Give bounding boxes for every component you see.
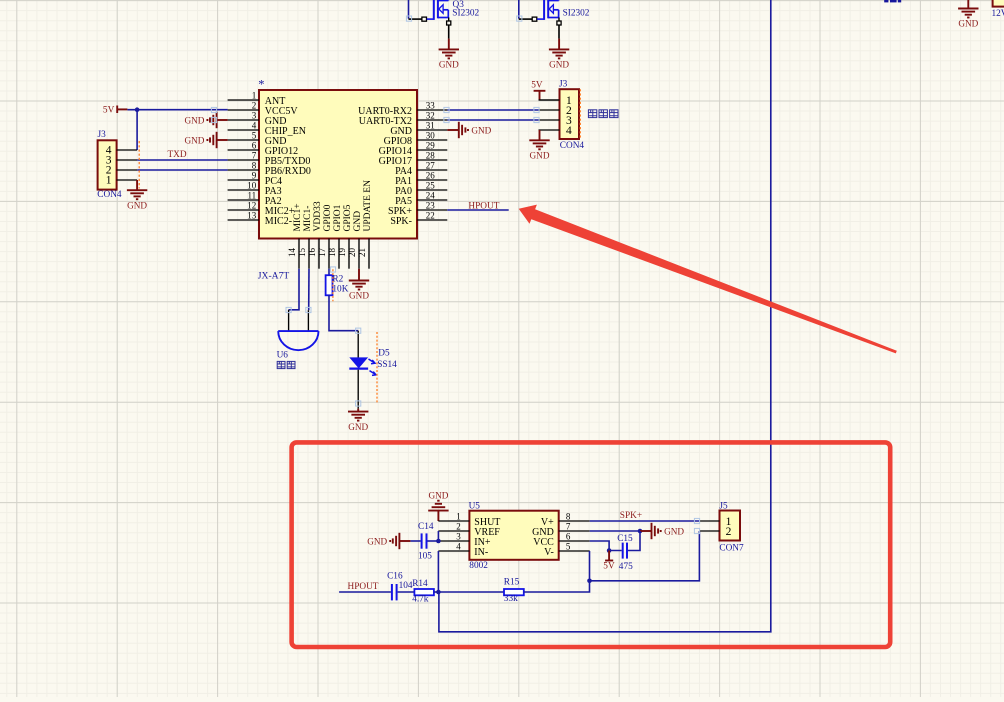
svg-text:V-: V-	[544, 547, 554, 558]
ground D5	[348, 409, 369, 432]
wire VREF to IN+	[437, 531, 439, 542]
svg-text:4.7k: 4.7k	[412, 595, 429, 605]
svg-text:R2: R2	[332, 275, 343, 285]
wire C14 to IN+	[428, 540, 439, 542]
svg-text:6: 6	[566, 532, 571, 542]
svg-text:5: 5	[566, 542, 571, 552]
connector J3 CON4 (burn port)	[539, 79, 585, 151]
svg-text:475: 475	[619, 562, 633, 572]
svg-text:GPIO0: GPIO0	[323, 204, 333, 231]
ground U1 pin31	[447, 122, 491, 138]
capacitor C14	[418, 522, 434, 562]
annotation red arrow	[519, 205, 897, 354]
wire TXD net	[137, 159, 228, 161]
svg-text:TXD: TXD	[168, 150, 187, 160]
svg-text:GPIO1: GPIO1	[333, 204, 343, 231]
svg-text:GND: GND	[348, 422, 368, 432]
junction	[436, 590, 441, 595]
wire 5V to VCC5V	[127, 109, 227, 111]
ground	[549, 39, 570, 70]
svg-text:SS14: SS14	[377, 360, 397, 370]
svg-text:C14: C14	[418, 522, 434, 532]
wire IN- down	[437, 551, 439, 592]
svg-text:GND: GND	[349, 291, 369, 301]
svg-text:21: 21	[357, 248, 367, 257]
svg-text:2: 2	[252, 100, 257, 110]
svg-text:25: 25	[426, 180, 436, 190]
svg-text:1: 1	[106, 175, 112, 187]
svg-text:GND: GND	[428, 491, 448, 501]
svg-text:12: 12	[247, 200, 256, 210]
svg-text:GND: GND	[184, 136, 204, 146]
svg-text:MIC1+: MIC1+	[293, 203, 303, 231]
wire UART0-RX2	[447, 109, 538, 111]
svg-text:14: 14	[287, 248, 297, 258]
capacitor C16	[387, 572, 413, 601]
svg-text:32: 32	[426, 110, 435, 120]
svg-text:GND: GND	[353, 211, 363, 232]
wire R15 to V-	[524, 551, 590, 592]
svg-text:26: 26	[426, 170, 436, 180]
svg-text:MIC2-: MIC2-	[265, 216, 292, 227]
resistor R2	[326, 269, 349, 296]
svg-text:GND: GND	[439, 60, 459, 70]
wire GND down to C15	[628, 531, 641, 551]
svg-text:3: 3	[252, 110, 257, 120]
connector J3 CON4 (left)	[97, 130, 137, 200]
selection dashes R2	[332, 269, 334, 301]
svg-text:C15: C15	[617, 534, 633, 544]
svg-text:2: 2	[456, 522, 461, 532]
ground	[958, 0, 979, 29]
wire MIC1- to mic	[308, 269, 310, 311]
capacitor C15	[617, 534, 633, 572]
power 5V	[103, 105, 127, 115]
svg-text:13: 13	[247, 210, 257, 220]
node 12V cut text	[884, 0, 901, 2]
svg-text:SI2302: SI2302	[563, 9, 590, 19]
wire long vertical net	[439, 0, 771, 632]
ground at C14	[367, 533, 410, 549]
svg-text:JX-A7T: JX-A7T	[258, 271, 290, 282]
svg-text:7: 7	[566, 522, 571, 532]
svg-text:HPOUT: HPOUT	[348, 582, 379, 592]
svg-text:R15: R15	[504, 577, 520, 587]
wire HPOUT	[339, 591, 391, 593]
svg-text:6: 6	[252, 140, 257, 150]
svg-text:5V: 5V	[103, 105, 115, 115]
resistor R14	[412, 579, 434, 605]
svg-text:5: 5	[252, 130, 257, 140]
svg-text:33k: 33k	[504, 594, 518, 604]
ground	[439, 39, 460, 70]
svg-text:CON4: CON4	[560, 141, 585, 151]
wire V+ to J5 pin1	[590, 520, 700, 522]
svg-text:SPK+: SPK+	[620, 511, 642, 521]
wire RXD net	[137, 169, 228, 171]
svg-text:19: 19	[337, 248, 347, 258]
svg-text:10K: 10K	[332, 285, 348, 295]
ground U1 pin20	[349, 269, 370, 301]
svg-text:HPOUT: HPOUT	[468, 201, 499, 211]
wire R14 to junction	[434, 591, 439, 593]
junction	[587, 579, 592, 584]
svg-text:29: 29	[426, 140, 436, 150]
svg-text:GND: GND	[530, 151, 550, 161]
svg-text:16: 16	[307, 248, 317, 258]
connector J? 12V fragment	[992, 0, 1004, 19]
selection marks	[211, 16, 699, 534]
svg-text:20: 20	[347, 248, 357, 258]
svg-text:GND: GND	[664, 527, 684, 537]
svg-text:24: 24	[426, 190, 436, 200]
wire C16 to R14	[398, 591, 415, 593]
svg-text:GND: GND	[367, 537, 387, 547]
svg-text:9: 9	[252, 170, 257, 180]
diode D5 SS14	[349, 331, 397, 409]
svg-text:11: 11	[248, 190, 257, 200]
svg-text:105: 105	[418, 552, 432, 562]
svg-text:7: 7	[252, 150, 257, 160]
junction	[436, 539, 441, 544]
svg-text:*: *	[258, 78, 264, 92]
svg-text:MIC1-: MIC1-	[303, 206, 313, 232]
ground J3 pin1	[127, 180, 148, 210]
node mic label (hua tong)	[277, 361, 295, 368]
wire 5V down to J3 pin4	[136, 110, 138, 150]
transistor Q3 SI2302	[409, 0, 480, 39]
svg-text:4: 4	[456, 542, 461, 552]
svg-text:VDD33: VDD33	[313, 201, 323, 231]
ic U1 JX-A7T module	[258, 78, 417, 282]
svg-text:33: 33	[426, 100, 436, 110]
wire VCC to C15	[590, 541, 622, 551]
svg-text:18: 18	[327, 248, 337, 258]
svg-text:J3: J3	[559, 79, 568, 89]
ground U1 pin5	[184, 132, 227, 148]
svg-text:27: 27	[426, 160, 436, 170]
svg-text:4: 4	[566, 125, 572, 137]
svg-text:10: 10	[247, 180, 257, 190]
power 5V at VCC	[603, 551, 615, 572]
svg-text:15: 15	[297, 248, 307, 258]
power 5V	[531, 80, 545, 100]
op-amp U5 8002 audio amplifier	[438, 502, 589, 572]
svg-text:17: 17	[317, 248, 327, 258]
svg-text:5V: 5V	[531, 80, 543, 90]
svg-text:GND: GND	[549, 60, 569, 70]
svg-text:SPK-: SPK-	[390, 216, 412, 227]
U1 bottom pins 14-21	[287, 180, 373, 269]
wire R2 to D5	[329, 295, 358, 330]
annotation red box	[292, 442, 891, 647]
ground at pin7	[640, 523, 684, 539]
svg-text:IN-: IN-	[474, 547, 488, 558]
svg-text:J3: J3	[98, 130, 107, 140]
svg-text:GND: GND	[471, 126, 491, 136]
wire	[518, 0, 520, 19]
svg-text:104: 104	[399, 581, 413, 591]
svg-text:SI2302: SI2302	[452, 9, 479, 19]
ground U5 pin1 (inverted)	[428, 491, 449, 521]
svg-text:GND: GND	[184, 116, 204, 126]
wire MIC1+ to mic	[289, 269, 299, 310]
microphone U6	[277, 310, 319, 361]
svg-text:12V: 12V	[992, 9, 1004, 19]
svg-text:U6: U6	[277, 351, 289, 361]
U1 right pins 33-22	[358, 100, 447, 226]
svg-text:8: 8	[252, 160, 257, 170]
resistor R15	[504, 577, 524, 604]
selection dashes	[138, 141, 140, 189]
junction	[607, 548, 612, 553]
wire GND net pin7	[590, 530, 640, 532]
selection dashes D5	[376, 332, 378, 403]
svg-text:30: 30	[426, 130, 436, 140]
junction	[135, 107, 140, 112]
junction	[638, 529, 643, 534]
svg-text:GND: GND	[127, 200, 147, 210]
U1 left pins 1-13	[228, 90, 311, 227]
wire GND to C14	[410, 540, 420, 542]
wire junction to R15	[438, 591, 504, 593]
svg-text:CON7: CON7	[719, 543, 744, 553]
ground J3 pin4	[529, 130, 550, 161]
svg-text:GPIO5: GPIO5	[343, 204, 353, 231]
svg-text:31: 31	[426, 120, 435, 130]
svg-text:CON4: CON4	[97, 190, 122, 200]
svg-text:1: 1	[252, 90, 257, 100]
svg-text:2: 2	[726, 526, 732, 538]
ground U1 pin3	[184, 112, 227, 128]
svg-text:22: 22	[426, 210, 435, 220]
svg-text:D5: D5	[378, 349, 390, 359]
svg-text:UPDATE EN: UPDATE EN	[363, 180, 373, 232]
selection dashes J3	[579, 89, 581, 139]
svg-text:8: 8	[566, 512, 571, 522]
svg-text:28: 28	[426, 150, 436, 160]
svg-text:8002: 8002	[469, 561, 488, 571]
svg-text:R14: R14	[412, 579, 428, 589]
svg-text:3: 3	[456, 532, 461, 542]
transistor Q4 SI2302	[519, 0, 590, 39]
node burn-port label	[588, 110, 618, 118]
wire V- to J5 pin2	[590, 531, 700, 581]
svg-text:23: 23	[426, 200, 436, 210]
wire UART0-TX2	[447, 119, 538, 121]
svg-text:1: 1	[456, 512, 461, 522]
wire 5V to J3 pin1	[540, 99, 560, 101]
svg-text:5V: 5V	[603, 562, 615, 572]
connector J5 CON7	[699, 502, 744, 554]
wire SPK+ / HPOUT	[447, 209, 508, 211]
svg-text:GND: GND	[958, 19, 978, 29]
svg-text:4: 4	[252, 120, 257, 130]
wire	[408, 0, 410, 19]
